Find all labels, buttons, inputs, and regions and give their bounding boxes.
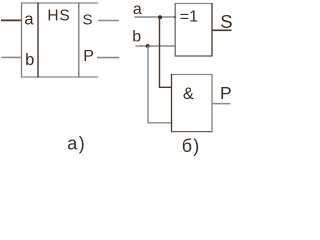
wire output S (left diagram)	[98, 20, 119, 22]
svg-text:a: a	[24, 11, 34, 29]
wire output P (right diagram)	[212, 103, 231, 105]
XOR gate U2 (=1) box	[175, 3, 212, 57]
wire branch from net b down to AND gate	[148, 46, 172, 123]
svg-text:а): а)	[67, 133, 86, 153]
svg-text:P: P	[220, 83, 232, 103]
wire b to XOR gate	[135, 45, 175, 47]
svg-text:b: b	[25, 51, 34, 69]
divider between input field and HS field	[37, 2, 39, 77]
divider between HS field and output field	[78, 2, 80, 77]
wire output P (left diagram)	[97, 57, 119, 59]
svg-text:б): б)	[182, 136, 201, 156]
junction dot on net a	[158, 15, 162, 19]
svg-text:a: a	[133, 1, 142, 18]
svg-text:=1: =1	[180, 9, 198, 26]
svg-text:P: P	[83, 48, 94, 65]
junction blip where net a meets XOR input pin	[174, 16, 176, 18]
svg-text:b: b	[132, 29, 141, 46]
svg-text:HS: HS	[47, 8, 70, 25]
wire input a (left diagram)	[1, 19, 22, 21]
svg-text:S: S	[83, 12, 93, 29]
wire branch from net a down to AND gate	[160, 17, 172, 87]
wire output S (right diagram)	[212, 29, 232, 31]
half-adder block U1 bottom edge	[22, 76, 99, 78]
svg-text:S: S	[220, 11, 232, 32]
wire input b (left diagram)	[2, 56, 23, 58]
junction dot on net b	[146, 44, 150, 48]
AND gate U3 (&) box	[172, 74, 213, 132]
half-adder block U1 (HS) box top edge	[22, 2, 99, 4]
svg-text:&: &	[183, 85, 194, 103]
half-adder block U1 left edge	[21, 2, 23, 77]
wire a to XOR gate	[134, 16, 175, 18]
